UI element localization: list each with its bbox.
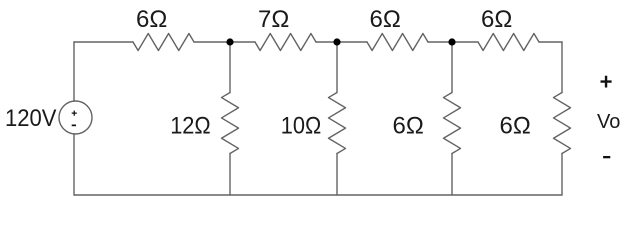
wire branch node B upper stub [336,42,338,93]
wire branch node C upper stub [451,42,453,93]
resistor R1 6Ω horizontal [133,34,194,51]
svg-text:6Ω: 6Ω [500,112,531,139]
wire top rail [74,41,562,43]
wire branch node A upper stub [229,42,231,93]
voltage source VS 120V circle [59,101,92,134]
resistor R7 6Ω vertical [444,93,461,154]
label output minus [603,156,610,158]
resistor R6 10Ω vertical [329,93,346,154]
node C junction dot [448,38,455,45]
resistor R3 6Ω horizontal [367,34,428,51]
wire branch node B lower stub [336,154,338,196]
svg-text:10Ω: 10Ω [281,112,322,139]
node B junction dot [333,38,340,45]
source polarity minus [72,124,76,126]
resistor R4 6Ω horizontal [478,34,539,51]
wire bottom rail [74,194,562,196]
resistor R8 6Ω vertical [554,93,571,154]
svg-text:Vo: Vo [597,111,620,133]
svg-text:120V: 120V [5,105,57,132]
svg-text:6Ω: 6Ω [370,6,401,33]
svg-text:6Ω: 6Ω [481,6,512,33]
svg-text:6Ω: 6Ω [136,6,167,33]
svg-text:7Ω: 7Ω [258,6,289,33]
resistor R2 7Ω horizontal [255,34,316,51]
source polarity plus [72,111,77,116]
wire right rail upper [561,42,563,93]
wire branch node A lower stub [229,154,231,196]
wire right rail lower [561,154,563,196]
svg-text:12Ω: 12Ω [170,112,211,139]
wire left rail upper [73,42,75,101]
resistor R5 12Ω vertical [222,93,239,154]
wire branch node C lower stub [451,154,453,196]
label output plus [601,76,612,88]
svg-text:6Ω: 6Ω [393,112,424,139]
node A junction dot [226,38,233,45]
wire left rail lower [73,134,75,195]
